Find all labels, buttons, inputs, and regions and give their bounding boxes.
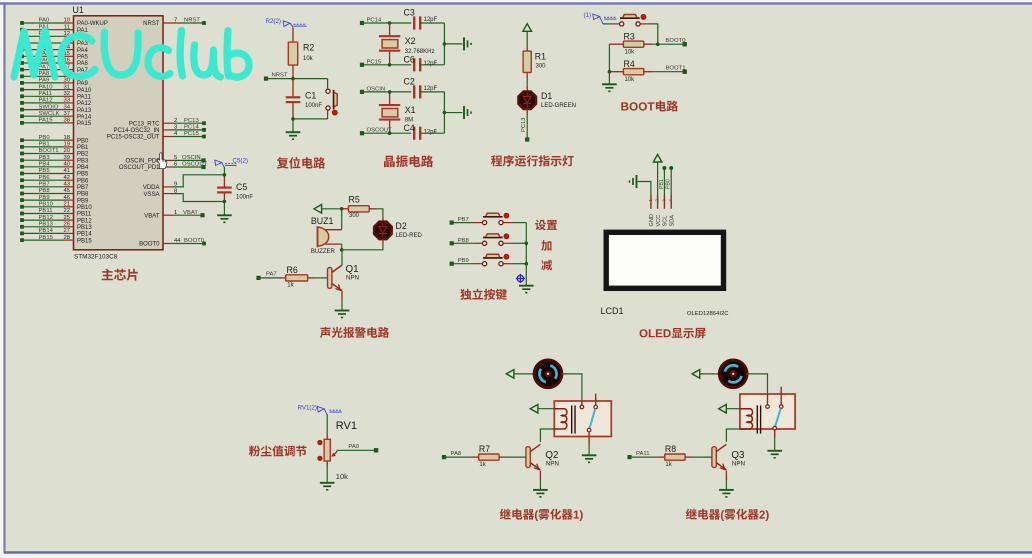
- chip pin 2 PC13_RTC: [129, 118, 206, 128]
- svg-text:X1: X1: [405, 105, 416, 115]
- svg-text:R3: R3: [624, 32, 635, 42]
- svg-text:GND: GND: [649, 214, 655, 226]
- svg-text:LCD1: LCD1: [601, 306, 624, 316]
- svg-text:R8: R8: [665, 444, 676, 454]
- svg-text:C5: C5: [236, 182, 247, 192]
- svg-text:PB1: PB1: [77, 145, 89, 151]
- chip pin 6 OSCOUT_PD1: [119, 162, 208, 172]
- capacitor C5 100nF: [217, 173, 253, 203]
- chip pin 44 BOOT0: [139, 238, 206, 248]
- capacitor C6 12pF: [404, 54, 445, 71]
- chip pin 10 PA0 wire: [20, 18, 108, 28]
- svg-text:C4: C4: [404, 123, 415, 133]
- svg-text:VSSA: VSSA: [143, 192, 159, 198]
- svg-text:PA0-WKUP: PA0-WKUP: [77, 21, 108, 27]
- caption 粉尘值调节: [249, 446, 307, 457]
- svg-text:BOOT0: BOOT0: [666, 38, 687, 44]
- svg-text:OSCOUT_PD1: OSCOUT_PD1: [119, 165, 160, 171]
- ground keys: [519, 286, 534, 293]
- svg-text:PB5: PB5: [77, 172, 89, 178]
- svg-text:300: 300: [536, 64, 547, 70]
- chip pin 15 PA5 wire: [20, 51, 88, 61]
- svg-text:NPN: NPN: [346, 275, 359, 282]
- svg-text:10k: 10k: [303, 56, 314, 62]
- svg-text:1k: 1k: [479, 462, 486, 468]
- svg-text:1k: 1k: [287, 283, 294, 289]
- chip pin 28 PB15 wire: [20, 235, 92, 245]
- button PB8: [450, 234, 527, 246]
- capacitor C3 12pF: [404, 8, 445, 30]
- chip pin 7 NRST: [143, 18, 206, 28]
- chip pin 38 PA15 wire: [20, 118, 92, 128]
- wire OSCOUT net: [360, 128, 411, 136]
- svg-text:PB4: PB4: [77, 165, 89, 171]
- relay 2 coil: [740, 405, 761, 433]
- capacitor C2 12pF: [404, 76, 445, 98]
- resistor R8 1k + node PA11: [627, 444, 712, 468]
- svg-text:C2: C2: [404, 76, 415, 86]
- node NRST wire: [264, 72, 328, 80]
- relay 1 coil: [554, 405, 575, 433]
- relay 1 contacts and blade: [580, 394, 597, 432]
- chip pin 25 PB12 wire: [20, 215, 92, 225]
- svg-text:41: 41: [63, 168, 70, 174]
- chip pin 32 PA11 wire: [20, 91, 91, 101]
- svg-text:22: 22: [63, 208, 70, 214]
- ground relay 2 switch: [767, 430, 782, 458]
- wire VSSA to C5: [173, 194, 225, 202]
- chip pin 22 PB11 wire: [20, 208, 92, 218]
- svg-text:PB1: PB1: [39, 142, 50, 148]
- relay RL1 box: [554, 401, 611, 437]
- svg-text:R2(2): R2(2): [266, 18, 281, 25]
- power terminal label R2(2): [266, 18, 307, 27]
- resistor R1 300: [523, 51, 546, 72]
- resistor R4 10k: [609, 59, 652, 83]
- svg-text:12pF: 12pF: [424, 61, 438, 67]
- LCD1 OLED display body: [601, 232, 730, 317]
- chip pin 26 PB13 wire: [20, 222, 92, 232]
- svg-text:R5: R5: [349, 195, 360, 205]
- power symbol relay 1 coil: [530, 404, 554, 413]
- pin 2 VCC: [655, 195, 662, 227]
- svg-text:25: 25: [63, 215, 70, 221]
- capacitor C4 12pF: [404, 123, 445, 140]
- relay RL2 box: [740, 394, 795, 429]
- svg-text:20: 20: [63, 148, 70, 154]
- svg-text:PC15-OSC32_OUT: PC15-OSC32_OUT: [107, 135, 160, 141]
- motor M2: [719, 360, 747, 388]
- svg-text:PB8: PB8: [39, 188, 51, 194]
- power symbol relay 2 coil: [719, 404, 740, 413]
- svg-text:PC15: PC15: [184, 131, 199, 137]
- svg-text:PB9: PB9: [39, 195, 50, 201]
- svg-text:PA0: PA0: [39, 18, 50, 24]
- svg-text:PB12: PB12: [77, 218, 92, 224]
- svg-text:PB15: PB15: [77, 238, 92, 244]
- svg-text:PC13: PC13: [521, 117, 527, 132]
- svg-text:40: 40: [63, 162, 70, 168]
- wire SCL PB1: [659, 166, 667, 195]
- wire Q3 collector to coil: [726, 429, 740, 442]
- caption 独立按键: [460, 289, 507, 300]
- svg-text:37: 37: [63, 111, 70, 117]
- chip pin 37 SWCLK wire: [20, 111, 92, 121]
- svg-text:28: 28: [63, 235, 70, 241]
- power symbol indicator: [523, 24, 532, 51]
- chip pin 16 PA6 wire: [20, 58, 88, 67]
- svg-text:X2: X2: [405, 36, 416, 46]
- resistor R2 10k: [288, 28, 314, 79]
- svg-text:R7: R7: [479, 444, 490, 454]
- button PB9: [450, 254, 527, 266]
- power terminal label RV1(2): [298, 405, 343, 415]
- ground crystal: [464, 37, 471, 50]
- power symbol motor 2: [692, 370, 720, 379]
- transistor Q2 NPN: [526, 444, 559, 470]
- chip pin 30 PA9 wire: [20, 78, 88, 88]
- wire Q1 emitter to ground: [335, 291, 350, 318]
- wire reset bottom: [291, 117, 327, 121]
- svg-text:PA15: PA15: [39, 118, 54, 124]
- chip pin 42 PB6 wire: [20, 175, 89, 185]
- resistor R7 1k + node PA8: [442, 444, 526, 468]
- BOOT button: [603, 14, 658, 44]
- svg-text:PA7: PA7: [266, 272, 277, 278]
- power terminal label (1): [584, 12, 617, 24]
- chip pin 8 VSSA: [143, 188, 178, 198]
- chip pin 11 PA1 wire: [20, 24, 88, 34]
- chip pin 4 PC15-OSC32_OUT: [107, 131, 206, 141]
- svg-text:PB3: PB3: [39, 155, 51, 161]
- svg-text:R4: R4: [624, 59, 635, 69]
- svg-text:OLED12864I2C: OLED12864I2C: [687, 311, 729, 317]
- caption OLED显示屏: [640, 328, 706, 339]
- svg-text:NRST: NRST: [143, 21, 160, 27]
- chip pin 18 PB0 wire: [20, 135, 89, 145]
- svg-text:12pF: 12pF: [424, 86, 438, 92]
- svg-text:R1: R1: [535, 52, 546, 62]
- power terminal label C5(2): [215, 158, 248, 175]
- chip pin 41 PB5 wire: [20, 168, 89, 178]
- svg-text:SCL: SCL: [663, 216, 669, 227]
- ground crystal: [464, 106, 471, 119]
- ground relay 1 switch: [582, 432, 597, 462]
- svg-text:PB14: PB14: [77, 232, 92, 238]
- svg-text:PA3: PA3: [77, 41, 89, 47]
- svg-text:U1: U1: [73, 5, 84, 15]
- svg-text:PA12: PA12: [77, 101, 92, 107]
- wire Q1 collector: [341, 250, 343, 265]
- svg-text:10k: 10k: [625, 50, 636, 56]
- chip pin 17 PA7 wire: [20, 64, 88, 74]
- svg-text:PB0: PB0: [77, 138, 89, 144]
- svg-text:PB6: PB6: [77, 178, 89, 184]
- ground Q2 emitter: [533, 471, 548, 497]
- svg-text:R6: R6: [287, 265, 298, 275]
- svg-text:PB7: PB7: [39, 182, 50, 188]
- transistor Q3 NPN: [712, 444, 745, 470]
- svg-text:PB12: PB12: [39, 215, 53, 221]
- wire motor 1 to relay: [561, 374, 582, 401]
- svg-text:21: 21: [63, 202, 70, 208]
- caption 复位电路: [277, 157, 325, 169]
- svg-text:PA11: PA11: [39, 91, 53, 97]
- svg-text:12pF: 12pF: [424, 17, 438, 23]
- capacitor C1 100nF: [286, 79, 323, 119]
- svg-text:VBAT: VBAT: [183, 210, 198, 216]
- svg-text:PA14: PA14: [77, 114, 92, 120]
- resistor R6 1k + node PA7: [256, 265, 327, 289]
- svg-text:PA10: PA10: [77, 88, 92, 94]
- motor M1: [534, 360, 562, 388]
- svg-text:10: 10: [63, 18, 70, 24]
- svg-text:LED-RED: LED-RED: [396, 233, 423, 239]
- resistor R3 10k: [609, 32, 652, 56]
- wire buzzer bottom to node: [341, 244, 343, 250]
- chip pin 19 PB1 wire: [20, 142, 89, 152]
- chip pin 3 PC14-OSC32_IN: [113, 125, 205, 135]
- chip pin 9 VDDA: [143, 182, 177, 192]
- buzzer BUZ1: [311, 216, 342, 255]
- svg-text:SDA: SDA: [669, 215, 675, 227]
- chip pin 14 PA4 wire: [20, 44, 88, 54]
- svg-text:SWCLK: SWCLK: [39, 111, 60, 117]
- caption 继电器(雾化器2): [686, 509, 769, 521]
- power symbol OLED VCC: [653, 154, 662, 195]
- svg-text:OSCOUT: OSCOUT: [182, 162, 208, 168]
- svg-text:PB4: PB4: [39, 162, 51, 168]
- label 减: [541, 260, 552, 271]
- ground OLED GND pin: [630, 175, 651, 195]
- chip pin 1 VBAT: [144, 210, 204, 220]
- svg-text:PB6: PB6: [39, 175, 51, 181]
- svg-text:PB13: PB13: [77, 225, 92, 231]
- wire D1 to PC13: [521, 109, 530, 142]
- svg-text:45: 45: [63, 188, 70, 194]
- svg-text:(1): (1): [584, 12, 592, 19]
- chip pin 5 OSCIN_PD0: [125, 155, 205, 165]
- svg-text:PB9: PB9: [77, 198, 89, 204]
- caption 程序运行指示灯: [491, 155, 574, 166]
- svg-text:46: 46: [63, 195, 70, 201]
- ground Q3 emitter: [719, 471, 734, 497]
- svg-text:BOOT0: BOOT0: [139, 242, 160, 248]
- svg-text:PB10: PB10: [39, 202, 54, 208]
- svg-text:PB11: PB11: [77, 212, 92, 218]
- chip pin 27 PB14 wire: [20, 228, 92, 238]
- chip pin 13 PA3 wire: [20, 38, 88, 48]
- transistor Q1 NPN: [328, 264, 360, 291]
- svg-text:PB1: PB1: [659, 179, 665, 189]
- svg-text:10k: 10k: [625, 77, 636, 83]
- svg-text:PA4: PA4: [77, 48, 89, 54]
- ground reset: [286, 119, 301, 139]
- wire crystal right vertical: [443, 23, 463, 65]
- pin 3 SCL: [661, 195, 668, 227]
- chip pin 31 PA10 wire: [20, 84, 92, 94]
- svg-text:300: 300: [349, 213, 360, 219]
- svg-text:PA8: PA8: [39, 71, 50, 77]
- origin marker: [516, 274, 525, 283]
- svg-text:33: 33: [63, 98, 70, 104]
- svg-text:PB2: PB2: [77, 152, 89, 158]
- potentiometer RV1 10k: [318, 414, 357, 481]
- pin 4 SDA: [668, 195, 675, 227]
- svg-text:OSCIN: OSCIN: [182, 155, 201, 161]
- resistor R5 300: [342, 195, 377, 220]
- svg-text:PA9: PA9: [77, 81, 89, 87]
- wire crystal right vertical: [443, 92, 463, 133]
- svg-text:32: 32: [63, 91, 70, 97]
- svg-text:30: 30: [63, 78, 70, 84]
- svg-text:PC13_RTC: PC13_RTC: [129, 121, 160, 127]
- wire PC15 net: [360, 59, 411, 67]
- svg-text:100nF: 100nF: [305, 103, 322, 109]
- svg-text:VCC: VCC: [656, 215, 662, 227]
- svg-text:PC14: PC14: [184, 125, 199, 131]
- caption 晶振电路: [384, 155, 433, 167]
- svg-text:7: 7: [174, 18, 177, 24]
- svg-text:34: 34: [63, 104, 70, 110]
- wire PC14 net: [360, 18, 411, 26]
- ground below C5: [217, 202, 232, 223]
- chip pin 45 PB8 wire: [20, 188, 89, 198]
- svg-text:PB0: PB0: [666, 179, 672, 189]
- svg-text:PB7: PB7: [77, 185, 89, 191]
- svg-text:Q3: Q3: [731, 450, 745, 461]
- svg-text:BUZZER: BUZZER: [311, 249, 336, 255]
- wire OSCIN net: [360, 86, 411, 94]
- svg-text:BOOT0: BOOT0: [184, 238, 205, 244]
- svg-text:PA5: PA5: [77, 55, 89, 61]
- wire keys common bus: [525, 223, 529, 286]
- wire SDA PB0: [666, 166, 674, 195]
- svg-text:RV1: RV1: [336, 420, 357, 432]
- label 加: [541, 240, 551, 251]
- svg-text:PA0: PA0: [348, 444, 359, 450]
- svg-text:RV1(2): RV1(2): [298, 405, 318, 412]
- op-amp U1 chip body STM32F103C8: [73, 5, 164, 261]
- svg-text:31: 31: [63, 84, 70, 90]
- svg-text:PA10: PA10: [39, 84, 54, 90]
- svg-text:Q1: Q1: [346, 264, 359, 275]
- caption 声光报警电路: [320, 327, 389, 338]
- relay 2 contacts and blade: [766, 387, 783, 430]
- wire R1 to D1: [526, 73, 528, 92]
- power symbol buzzer: [314, 205, 344, 214]
- pin 1 GND: [648, 195, 655, 227]
- wire Q2 collector to coil: [540, 429, 554, 442]
- watermark MCUclub: [14, 31, 249, 78]
- svg-text:18: 18: [63, 135, 70, 141]
- svg-text:39: 39: [63, 155, 70, 161]
- svg-text:PA13: PA13: [77, 108, 92, 114]
- svg-text:PA12: PA12: [39, 98, 53, 104]
- wire VDDA to C5: [173, 175, 225, 187]
- svg-text:PA15: PA15: [77, 121, 92, 127]
- chip pin 20 BOOT1 wire: [20, 148, 89, 158]
- svg-text:NRST: NRST: [272, 72, 288, 78]
- button PB7: [450, 213, 527, 225]
- chip pin 46 PB9 wire: [20, 195, 89, 205]
- svg-text:42: 42: [63, 175, 70, 181]
- svg-text:19: 19: [63, 142, 70, 148]
- chip pin 12 PA2 wire: [20, 31, 88, 41]
- svg-text:C3: C3: [404, 8, 415, 18]
- wire R5 to D2: [377, 209, 383, 222]
- svg-text:10k: 10k: [336, 472, 348, 481]
- svg-text:PA6: PA6: [77, 61, 89, 67]
- svg-text:12pF: 12pF: [424, 130, 438, 136]
- svg-text:NPN: NPN: [732, 461, 745, 468]
- svg-text:NPN: NPN: [546, 461, 559, 468]
- svg-text:SWDIO: SWDIO: [39, 104, 59, 110]
- svg-text:VDDA: VDDA: [143, 185, 160, 191]
- svg-text:VBAT: VBAT: [144, 213, 160, 219]
- power symbol motor 1: [506, 370, 535, 379]
- svg-text:PA11: PA11: [636, 451, 650, 457]
- svg-text:C1: C1: [305, 91, 316, 101]
- chip pin 39 PB3 wire: [20, 155, 89, 165]
- svg-text:R2: R2: [303, 43, 314, 53]
- svg-text:BUZ1: BUZ1: [311, 216, 334, 226]
- chip pin 43 PB7 wire: [20, 182, 89, 192]
- wire motor 2 to relay: [746, 374, 767, 394]
- svg-text:PB15: PB15: [39, 235, 54, 241]
- svg-text:11: 11: [64, 24, 70, 30]
- svg-text:Q2: Q2: [545, 450, 558, 461]
- svg-text:PB8: PB8: [77, 192, 89, 198]
- svg-text:100nF: 100nF: [236, 195, 253, 201]
- svg-text:PC13: PC13: [184, 118, 199, 124]
- svg-text:NRST: NRST: [184, 18, 200, 24]
- chip pin 21 PB10 wire: [20, 202, 92, 212]
- svg-text:PA8: PA8: [451, 451, 462, 457]
- node BOOT0: [652, 38, 687, 47]
- svg-text:26: 26: [63, 222, 70, 228]
- node BOOT1: [652, 65, 687, 74]
- svg-text:LED-GREEN: LED-GREEN: [541, 103, 576, 109]
- ground BOOT: [602, 72, 617, 92]
- caption 主芯片: [102, 269, 138, 281]
- chip pin 34 SWDIO wire: [20, 104, 92, 114]
- chip pin 29 PA8 wire: [20, 71, 88, 81]
- svg-text:STM32F103C8: STM32F103C8: [74, 254, 118, 261]
- reset button: [326, 79, 337, 119]
- svg-text:PA9: PA9: [39, 78, 50, 84]
- svg-text:OSCIN_PD0: OSCIN_PD0: [125, 159, 160, 165]
- svg-text:PB11: PB11: [39, 208, 53, 214]
- mouse cursor: [157, 153, 167, 169]
- svg-text:PB0: PB0: [39, 135, 51, 141]
- diode D1 LED-GREEN: [518, 91, 576, 109]
- caption 继电器(雾化器1): [500, 509, 583, 521]
- crystal X1 8M: [379, 92, 416, 133]
- wire buzzer top to rail: [341, 209, 343, 230]
- wire R3-R4 left vertical: [608, 44, 612, 73]
- svg-text:BOOT1: BOOT1: [39, 148, 59, 154]
- svg-text:PC14-OSC32_IN: PC14-OSC32_IN: [113, 128, 159, 134]
- diode D2 LED-RED: [374, 221, 423, 239]
- svg-text:PB3: PB3: [77, 158, 89, 164]
- wiper arrow to PA0: [331, 444, 378, 457]
- svg-text:D2: D2: [396, 221, 407, 231]
- svg-text:PB13: PB13: [39, 222, 54, 228]
- svg-text:PB5: PB5: [39, 168, 51, 174]
- ground RV1: [320, 461, 335, 490]
- chip pin 40 PB4 wire: [20, 162, 89, 172]
